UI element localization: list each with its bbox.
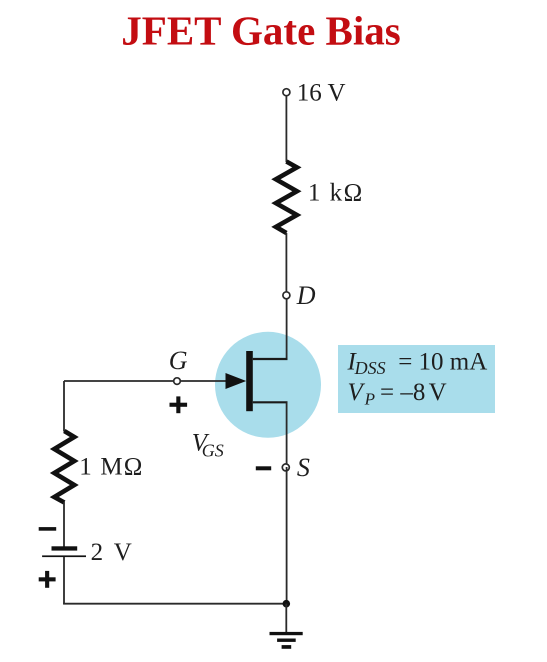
svg-text:= –8 V: = –8 V xyxy=(380,379,447,406)
wire: resistor RG to battery xyxy=(63,502,65,547)
node S open circle xyxy=(282,464,289,471)
node G open circle xyxy=(174,378,181,385)
svg-text:S: S xyxy=(297,453,310,482)
wire: node S down to bottom junction xyxy=(286,467,288,603)
transistor Q1 source lead xyxy=(253,401,288,403)
node D open circle xyxy=(283,292,290,299)
plus sign below node G xyxy=(170,396,188,413)
info box xyxy=(338,345,495,413)
wire: bottom rail xyxy=(63,603,287,605)
svg-text:D: D xyxy=(296,281,316,310)
svg-text:DSS: DSS xyxy=(354,358,386,378)
wire: resistor RD to node D xyxy=(285,233,287,295)
minus sign left of node S xyxy=(256,466,271,470)
wire: source lead down to node S xyxy=(286,402,288,467)
transistor Q1 gate arrowhead xyxy=(226,373,247,389)
svg-text:1 MΩ: 1 MΩ xyxy=(79,453,143,480)
info box text VP = -8 V xyxy=(348,379,447,408)
svg-text:G: G xyxy=(169,346,188,375)
wire: node G to transistor gate xyxy=(181,380,230,382)
minus sign above battery xyxy=(39,527,57,531)
svg-text:P: P xyxy=(364,389,375,408)
plus sign below battery xyxy=(39,571,56,588)
battery V1 thin plate xyxy=(42,555,86,557)
resistor RG 1 MOhm zigzag xyxy=(54,431,74,503)
resistor RD 1 kOhm zigzag xyxy=(276,162,297,234)
info box text IDSS = 10 mA xyxy=(347,348,488,377)
transistor highlight circle xyxy=(215,332,321,438)
wire: gate from left rail to node G xyxy=(64,380,173,382)
svg-text:1 kΩ: 1 kΩ xyxy=(308,180,364,207)
svg-text:JFET Gate Bias: JFET Gate Bias xyxy=(121,8,400,54)
wire: left rail from gate down to resistor RG xyxy=(63,381,65,432)
wire: node D down to drain lead xyxy=(286,295,288,360)
svg-text:16 V: 16 V xyxy=(297,79,346,106)
svg-text:2 V: 2 V xyxy=(91,539,132,566)
wire: battery down to bottom rail xyxy=(63,557,65,604)
svg-text:= 10 mA: = 10 mA xyxy=(398,348,487,375)
wire: junction to ground xyxy=(285,604,287,632)
ground symbol xyxy=(270,632,303,649)
transistor Q1 drain lead xyxy=(253,358,288,360)
terminal 16V open circle xyxy=(283,89,290,96)
junction dot xyxy=(283,600,291,608)
svg-text:GS: GS xyxy=(202,440,224,460)
battery V1 thick plate xyxy=(52,546,78,550)
transistor Q1 JFET gate bar xyxy=(246,351,253,411)
wire: 16V terminal to resistor RD xyxy=(285,93,287,162)
